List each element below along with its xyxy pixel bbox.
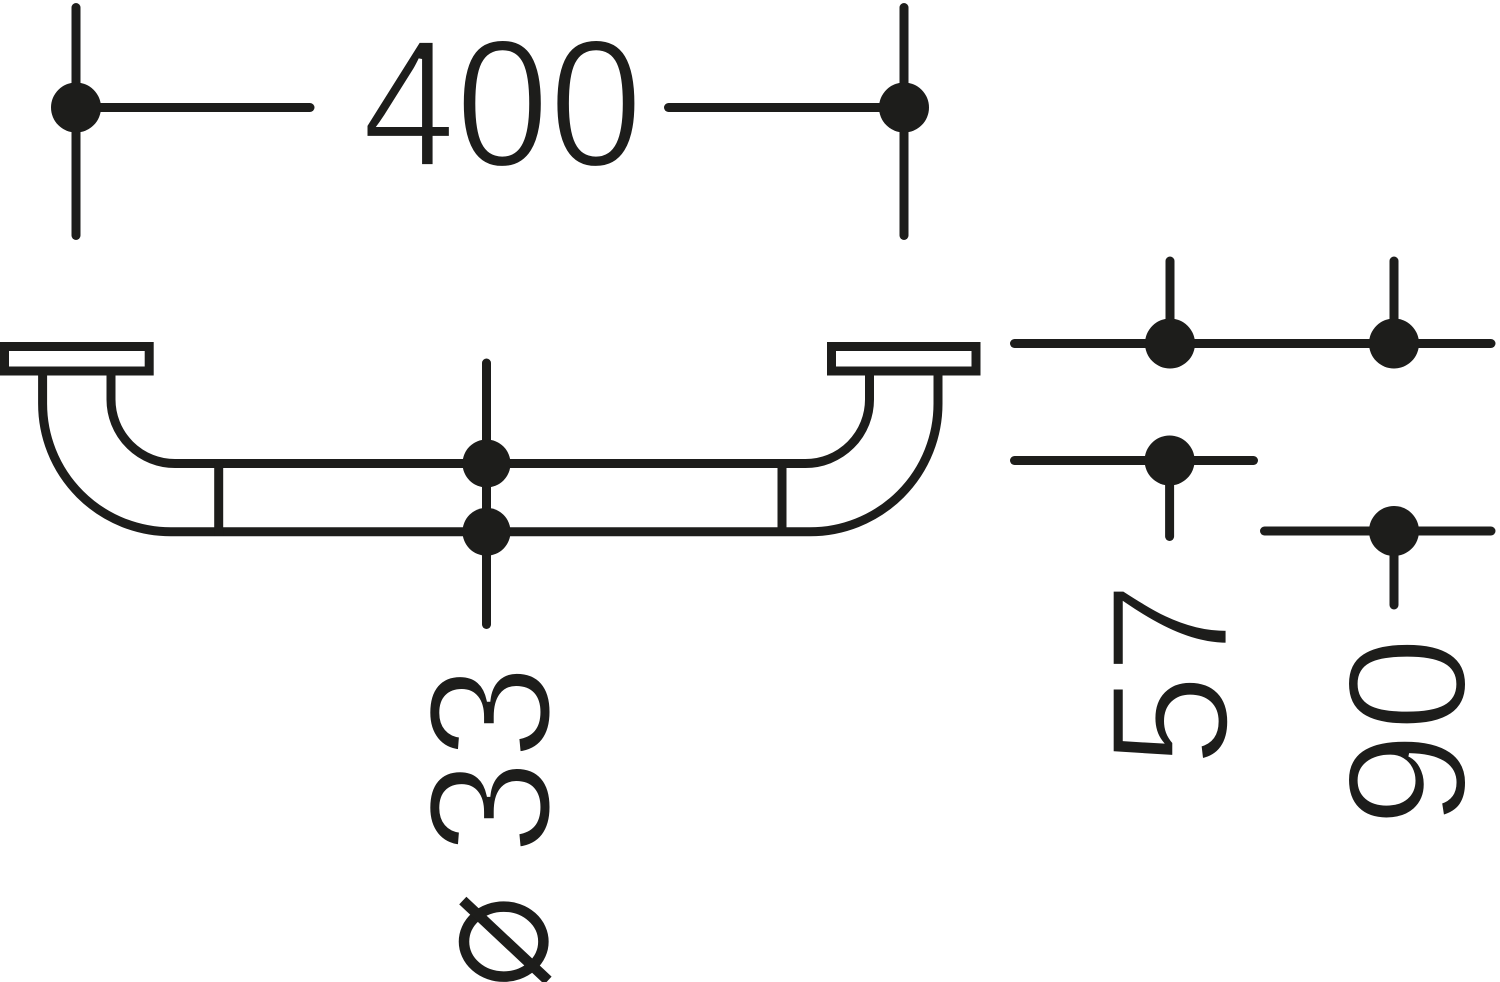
svg-text:57: 57	[1077, 582, 1264, 767]
grab bar tube inner contour	[111, 373, 870, 464]
svg-text:90: 90	[1313, 636, 1500, 827]
dimension 400 left dimension line	[76, 103, 310, 112]
wall line dot 2	[1369, 319, 1419, 369]
dimension 90 tick	[1390, 531, 1399, 605]
dimension 400 left extension tick	[72, 8, 81, 236]
grab bar left weld joint line	[214, 460, 223, 537]
diameter top dot	[463, 440, 511, 488]
dimension 57 line	[1015, 456, 1254, 465]
wall line dot 1	[1145, 319, 1195, 369]
grab bar right wall flange	[832, 347, 977, 372]
grab bar tube outer contour	[43, 373, 938, 532]
diameter symbol ring	[464, 907, 543, 977]
dimension 90 dot	[1369, 506, 1419, 556]
dimension 400 left dot	[51, 83, 101, 133]
svg-text:400: 400	[362, 2, 643, 205]
diameter symbol slash	[463, 901, 548, 981]
grab bar left wall flange	[5, 347, 150, 372]
dimension 57 tick	[1165, 461, 1174, 537]
dimension 57 dot	[1145, 436, 1195, 486]
dimension 90 line	[1265, 527, 1492, 536]
wall line tick 1	[1166, 261, 1175, 344]
diameter bottom dot	[463, 508, 511, 556]
dimension 400 right dimension line	[669, 103, 905, 112]
wall reference line	[1015, 339, 1492, 348]
grab bar right weld joint line	[778, 460, 787, 537]
svg-text:33: 33	[394, 665, 587, 855]
dimension 400 right dot	[879, 83, 929, 133]
dimension 400 right extension tick	[900, 8, 909, 236]
wall line tick 2	[1390, 261, 1399, 344]
diameter centre tick	[482, 363, 491, 625]
